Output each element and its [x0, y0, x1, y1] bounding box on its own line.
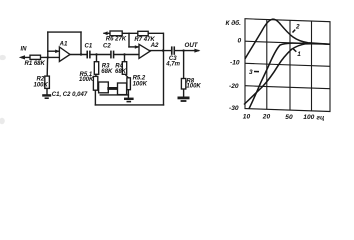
svg-text:3: 3	[249, 69, 253, 76]
svg-text:гц: гц	[317, 114, 325, 121]
svg-text:2: 2	[295, 24, 300, 31]
svg-text:IN: IN	[21, 47, 28, 53]
svg-text:20: 20	[262, 114, 271, 121]
svg-text:R6 27K: R6 27K	[106, 37, 127, 43]
svg-text:-10: -10	[230, 60, 240, 67]
svg-text:A1: A1	[59, 40, 68, 47]
svg-text:A2: A2	[150, 42, 159, 49]
svg-text:100K: 100K	[186, 84, 201, 90]
svg-text:10: 10	[243, 113, 251, 120]
svg-text:-30: -30	[229, 105, 239, 112]
svg-text:50: 50	[285, 114, 293, 121]
svg-text:100K: 100K	[79, 77, 94, 83]
svg-text:4,7m: 4,7m	[165, 61, 180, 67]
svg-text:68K: 68K	[115, 69, 127, 75]
svg-text:100K: 100K	[133, 82, 148, 88]
svg-text:C1: C1	[85, 43, 93, 49]
svg-text:R1 68K: R1 68K	[25, 61, 46, 67]
svg-text:-20: -20	[229, 83, 239, 90]
svg-text:0: 0	[238, 38, 242, 45]
svg-text:C2: C2	[103, 43, 111, 49]
svg-text:OUT: OUT	[185, 42, 199, 49]
svg-text:68K: 68K	[101, 69, 113, 75]
svg-text:100: 100	[303, 114, 314, 121]
svg-text:100K: 100K	[34, 82, 49, 88]
svg-text:К дб.: К дб.	[226, 19, 242, 27]
svg-text:C1, C2 0,047: C1, C2 0,047	[52, 92, 88, 98]
svg-text:1: 1	[297, 51, 301, 58]
